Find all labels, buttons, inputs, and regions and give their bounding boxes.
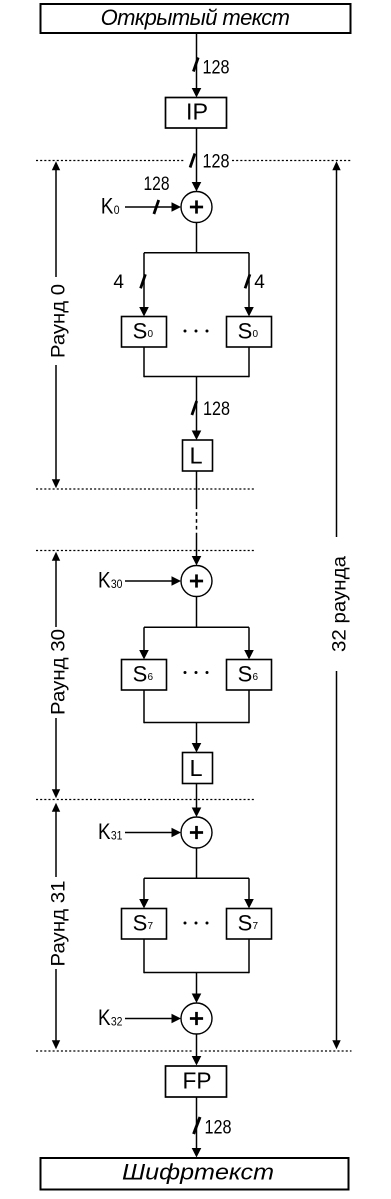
svg-text:4: 4: [113, 272, 124, 293]
svg-text:32: 32: [111, 1017, 123, 1029]
svg-text:128: 128: [205, 1118, 232, 1139]
svg-text:128: 128: [144, 174, 170, 195]
svg-text:32 раунда: 32 раунда: [329, 556, 351, 652]
svg-text:FP: FP: [183, 1068, 212, 1094]
svg-text:Открытый текст: Открытый текст: [101, 5, 290, 30]
svg-text:128: 128: [203, 399, 230, 420]
svg-text:S: S: [238, 911, 253, 936]
svg-text:0: 0: [114, 205, 120, 217]
svg-text:K: K: [98, 1005, 111, 1030]
svg-text:S: S: [238, 319, 253, 344]
svg-text:4: 4: [254, 272, 265, 293]
svg-text:128: 128: [203, 152, 230, 173]
svg-text:30: 30: [111, 579, 123, 591]
svg-text:6: 6: [148, 672, 154, 683]
svg-text:7: 7: [253, 921, 259, 932]
svg-text:Раунд 31: Раунд 31: [48, 881, 70, 967]
svg-text:S: S: [133, 662, 148, 687]
svg-text:7: 7: [148, 921, 154, 932]
svg-text:L: L: [189, 443, 202, 469]
svg-text:Шифртекст: Шифртекст: [122, 1160, 274, 1185]
svg-text:IP: IP: [186, 99, 208, 125]
svg-text:0: 0: [148, 329, 154, 340]
svg-text:S: S: [238, 662, 253, 687]
svg-text:S: S: [133, 319, 148, 344]
svg-text:128: 128: [203, 58, 230, 79]
svg-text:0: 0: [253, 329, 259, 340]
svg-text:Раунд 30: Раунд 30: [48, 629, 70, 715]
svg-text:K: K: [101, 194, 114, 219]
svg-text:L: L: [189, 755, 202, 781]
svg-text:Раунд 0: Раунд 0: [48, 284, 70, 358]
svg-text:K: K: [98, 819, 111, 844]
svg-text:31: 31: [111, 831, 123, 843]
svg-text:K: K: [98, 568, 111, 593]
svg-text:6: 6: [253, 672, 259, 683]
svg-text:S: S: [133, 911, 148, 936]
